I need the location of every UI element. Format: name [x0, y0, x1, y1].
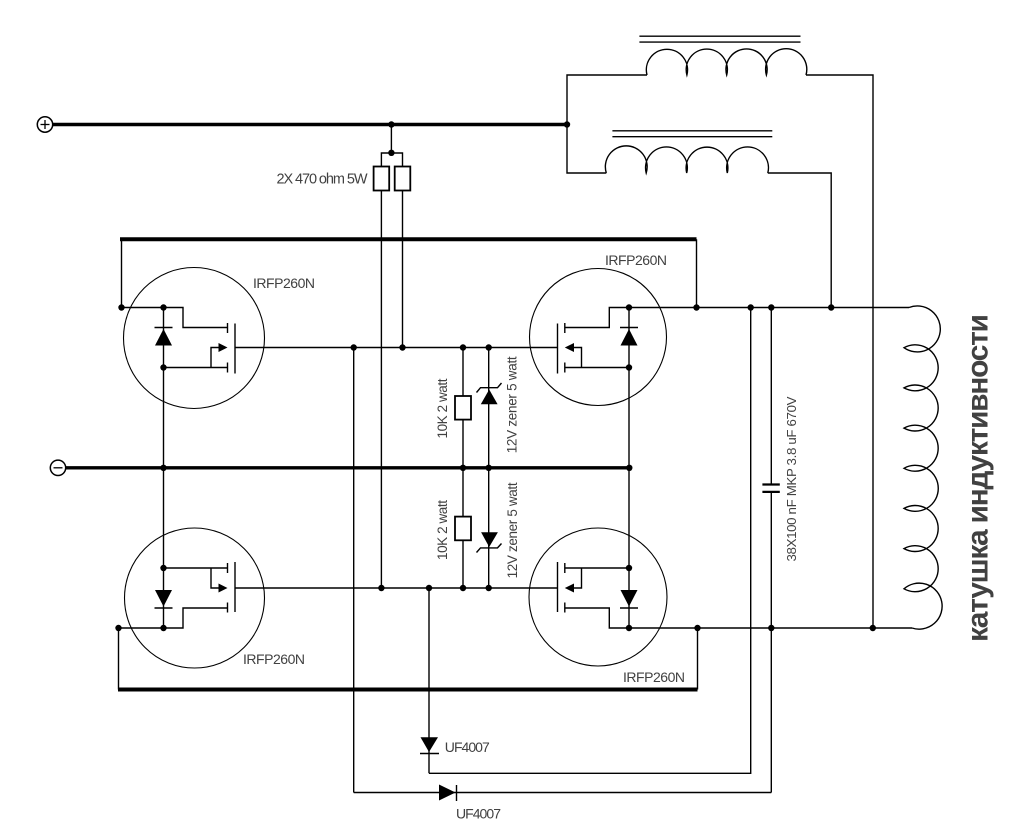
M2 channel bar: [557, 324, 559, 374]
junction: node B / D1: [426, 585, 432, 591]
svg-text:IRFP260N: IRFP260N: [623, 669, 685, 685]
inductor L1 core lines: [639, 35, 800, 37]
capacitor C1 plates: [762, 483, 779, 485]
M4 channel bar: [557, 562, 559, 612]
M3 gate contact bar (bottom): [227, 603, 229, 613]
svg-text:38X100 nF MKP 3.8 uF 670V: 38X100 nF MKP 3.8 uF 670V: [784, 396, 799, 561]
svg-text:UF4007: UF4007: [445, 739, 490, 755]
M3 source wire: [164, 567, 228, 569]
wire: node A down to D2: [353, 348, 355, 793]
inductor L2 core lines: [612, 130, 772, 132]
wire: node A (upper midpoint): [235, 347, 558, 349]
wire: feed inductor left legs: [567, 75, 647, 173]
junction: M1 source node: [160, 364, 166, 370]
M4 source wire: [565, 567, 629, 569]
junction: - rail end / M2-M4: [626, 465, 632, 471]
svg-text:катушка индуктивности: катушка индуктивности: [962, 314, 995, 642]
wire: M1 source to M3 drain: [163, 368, 165, 569]
minus terminal: [50, 460, 65, 475]
M1 source wire: [164, 367, 228, 369]
svg-text:10K 2 watt: 10K 2 watt: [435, 500, 450, 560]
transistor M4 IRFP260N (bottom-right): [529, 528, 667, 666]
zener diode Z1 12V (upper): [477, 348, 502, 468]
junction: node B / R1: [378, 585, 384, 591]
M4 gate contact bar (bottom): [564, 603, 566, 613]
junction: M4 source node: [626, 625, 632, 631]
M1 body diode triangle: [155, 329, 172, 346]
M2 source wire: [565, 367, 629, 369]
wire: bottom gate cross-coupling rail (thick): [118, 688, 698, 692]
svg-text:IRFP260N: IRFP260N: [605, 252, 667, 268]
diode D2 UF4007 (horizontal): [439, 785, 457, 802]
wire: + rail: [53, 123, 567, 127]
M1 channel bar: [234, 324, 236, 374]
svg-text:12V zener 5 watt: 12V zener 5 watt: [505, 356, 520, 453]
wire: top gate cross-coupling rail (thick): [120, 237, 697, 241]
transistor M2 IRFP260N (top-right): [530, 269, 667, 406]
M1 body diode cathode bar: [155, 327, 173, 329]
M3 body diode cathode bar: [155, 607, 173, 609]
junction: M2 source node: [626, 364, 632, 370]
M1 body tee: [211, 348, 219, 368]
M1 gate contact bar (top): [227, 323, 229, 333]
svg-text:2X 470 ohm 5W: 2X 470 ohm 5W: [277, 172, 368, 188]
M3 body tee: [211, 568, 219, 588]
M1 gate wire from rail: [122, 307, 164, 309]
M3 gate step: [164, 608, 228, 628]
junction: node A / D2 branch: [351, 344, 357, 350]
svg-text:10K 2 watt: 10K 2 watt: [435, 378, 450, 438]
M4 body diode line: [628, 568, 630, 628]
M3 body arrow: [219, 584, 228, 593]
junction: node B / Z2: [486, 585, 492, 591]
wire: top rail to M1 gate node: [121, 239, 123, 307]
wire: node B (lower midpoint): [235, 587, 558, 589]
resistor R4 10K 2 watt (lower): [462, 468, 464, 588]
plus terminal: [37, 117, 52, 132]
junction: top node / D1 return: [748, 304, 754, 310]
wire: R1 lead down to node B: [380, 191, 382, 589]
M2 body tee: [574, 348, 582, 368]
junction: bottom node / L1 leg: [870, 625, 876, 631]
inductor L2 (lower feed choke): [605, 146, 768, 173]
junction: node B / R4: [460, 585, 466, 591]
M2 body diode line: [628, 308, 630, 368]
wire: L1 right leg down to bottom node: [806, 75, 873, 628]
M4 body diode triangle: [621, 590, 638, 607]
wire: bottom rail to M4 source node: [697, 628, 699, 690]
junction: - rail / R3 R4: [460, 465, 466, 471]
M2 body arrow: [565, 343, 574, 352]
M3 gate wire from rail: [119, 627, 164, 629]
junction: node A / R3: [460, 344, 466, 350]
junction: M4 drain node: [626, 565, 632, 571]
junction: - rail / M1-M3: [160, 465, 166, 471]
M1 source contact bar (bottom): [227, 363, 229, 373]
svg-text:IRFP260N: IRFP260N: [243, 651, 305, 667]
wire: split to 470 ohm resistors: [381, 153, 402, 167]
wire: top drain node (M2 to coil): [629, 307, 909, 309]
M3 channel bar: [234, 562, 236, 612]
junction: M2 drain node: [626, 304, 632, 310]
junction: node A / Z1: [486, 344, 492, 350]
junction: - rail / Z1 Z2: [486, 465, 492, 471]
junction: bottom node / rail drop: [694, 625, 700, 631]
resistor R3 10K 2 watt (upper): [462, 348, 464, 468]
M4 source contact bar (top): [564, 563, 566, 573]
M4 body tee: [574, 568, 582, 588]
svg-text:IRFP260N: IRFP260N: [253, 275, 315, 291]
M1 body diode line: [163, 308, 165, 368]
wire: resistor tap from + rail: [390, 125, 392, 153]
inductor L3 work coil (right): [904, 306, 942, 629]
wire: capacitor branch / D2 return: [770, 308, 772, 485]
junction: M3 gate/diode node: [160, 625, 166, 631]
resistor R1 2X470 ohm 5W (left): [374, 167, 390, 191]
junction: M1 gate/diode node: [160, 304, 166, 310]
M3 body diode line: [163, 568, 165, 628]
svg-text:12V zener 5 watt: 12V zener 5 watt: [505, 482, 520, 578]
diode D1 UF4007 (vertical): [420, 737, 439, 753]
M4 gate step: [565, 608, 629, 628]
wire: bottom node (M4 to coil): [629, 627, 912, 629]
transistor M1 IRFP260N (top-left): [122, 268, 265, 409]
wire: node B down to D1: [428, 588, 430, 773]
resistor R2 2X470 ohm 5W (right): [395, 167, 411, 191]
svg-text:UF4007: UF4007: [456, 806, 501, 822]
junction: top node / capacitor: [768, 304, 774, 310]
wire: M2 source to M4 drain: [628, 368, 630, 569]
transistor M3 IRFP260N (bottom-left): [119, 528, 265, 668]
M2 gate contact bar (top): [564, 323, 566, 333]
M3 source contact bar (top): [227, 563, 229, 573]
junction: top node / rail drop: [693, 304, 699, 310]
wire: bottom rail to M3 gate node: [118, 628, 120, 690]
M2 body diode cathode bar: [620, 327, 638, 329]
junction: + rail / resistor tap: [388, 121, 394, 127]
wire: - rail: [66, 466, 630, 469]
inductor L1 (top feed choke): [646, 49, 806, 75]
wire: D1 return (top node down to D1): [429, 308, 751, 774]
M4 body arrow: [565, 584, 574, 593]
M1 body arrow: [219, 343, 228, 352]
junction: bottom node / capacitor: [768, 625, 774, 631]
junction: M3 drain node: [160, 565, 166, 571]
junction: M3 gate at rail drop: [115, 625, 121, 631]
wire: D2 horizontal run: [354, 792, 772, 794]
wire: top rail to M2 drain node: [696, 239, 698, 307]
junction: resistor split: [388, 150, 394, 156]
M1 gate step: [164, 308, 228, 328]
wire: R2 lead down to node A: [402, 191, 404, 348]
junction: + rail / inductor legs: [564, 121, 570, 127]
junction: node A / R2: [399, 344, 405, 350]
zener diode Z2 12V (lower): [477, 468, 502, 588]
M2 gate step: [565, 308, 629, 328]
junction: M1 gate node at rail drop: [118, 304, 124, 310]
M2 body diode triangle: [621, 329, 638, 346]
M2 source contact bar (bottom): [564, 363, 566, 373]
junction: top node / L2 leg: [828, 304, 834, 310]
M3 body diode triangle: [155, 590, 172, 607]
wire: L2 right leg down to top node: [768, 173, 831, 308]
M4 body diode cathode bar: [620, 607, 638, 609]
